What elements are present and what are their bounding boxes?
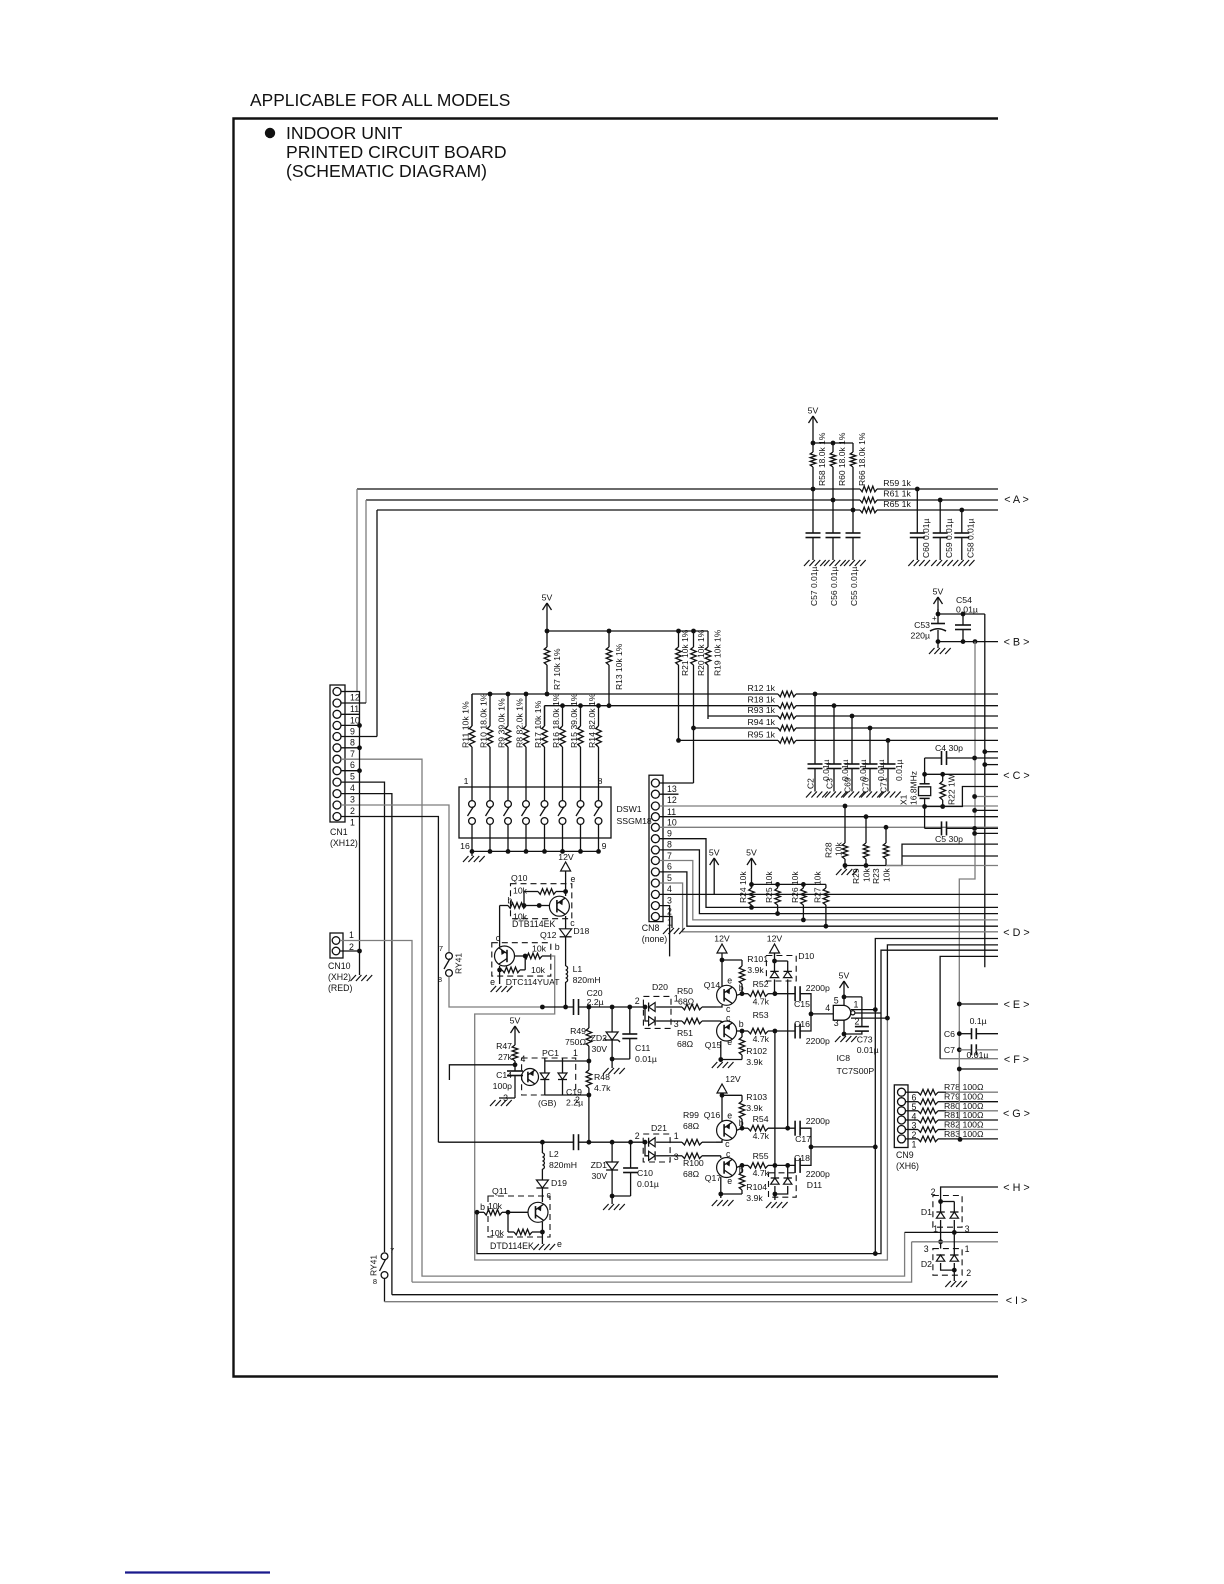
power 5V (left) [713, 858, 715, 876]
svg-text:2.2µ: 2.2µ [566, 1098, 583, 1108]
svg-text:C55 0.01µ: C55 0.01µ [849, 567, 859, 606]
resistor R54 4.7k [742, 1127, 748, 1129]
svg-text:L2: L2 [549, 1149, 559, 1159]
svg-text:13: 13 [667, 784, 677, 794]
wire CN10 pin1 [340, 941, 412, 1283]
svg-text:12V: 12V [714, 934, 730, 944]
resistor R55 4.7k [742, 1164, 748, 1166]
resistor R16 18.0k 1% [562, 725, 564, 727]
wire CN1 pin9 [341, 724, 360, 726]
svg-text:10k: 10k [834, 842, 844, 856]
svg-text:R13 10k 1%: R13 10k 1% [614, 643, 624, 690]
resistor R14 82.0k 1% [598, 725, 600, 727]
capacitor C60 0.01u [916, 489, 918, 533]
wire R53 bus down [774, 1031, 776, 1165]
wire bus pin12 down to CN10 [357, 692, 360, 976]
svg-text:12V: 12V [725, 1074, 741, 1084]
svg-text:PC1: PC1 [542, 1048, 559, 1058]
resistor R48 4.7k [588, 1061, 590, 1070]
capacitor C7 0.01u [957, 1047, 962, 1052]
resistor R99 68ohm [672, 1141, 682, 1143]
svg-text:CN8: CN8 [642, 923, 660, 933]
svg-text:30V: 30V [592, 1171, 608, 1181]
svg-text:C57 0.01µ: C57 0.01µ [809, 567, 819, 606]
svg-text:8: 8 [373, 1277, 377, 1286]
svg-text:10k: 10k [862, 868, 872, 882]
svg-text:Q16: Q16 [704, 1110, 721, 1120]
wire CN1 pin4 to RY41-2 [341, 782, 385, 1252]
svg-text:R21 10k 1%: R21 10k 1% [680, 629, 690, 676]
wire D1 pin3 line [953, 1220, 955, 1232]
wire R48 bottom to C19 line [588, 1095, 590, 1142]
svg-text:12V: 12V [558, 852, 574, 862]
svg-text:2: 2 [635, 996, 640, 1006]
capacitor C11 0.01u [629, 1007, 631, 1034]
wire CN8 pin3 line [660, 893, 999, 895]
svg-text:(RED): (RED) [328, 983, 353, 993]
svg-text:< C >: < C > [1003, 770, 1029, 782]
svg-text:R50: R50 [677, 986, 693, 996]
phototransistor PC1 [522, 1069, 539, 1086]
resistor R23 10k [885, 827, 887, 843]
svg-text:10k: 10k [490, 1228, 505, 1238]
svg-text:R93 1k: R93 1k [747, 705, 775, 715]
svg-text:c: c [725, 1139, 730, 1149]
wire node F stub [940, 1058, 998, 1060]
svg-text:27k: 27k [498, 1052, 513, 1062]
zener ZD1 30V [611, 1142, 613, 1162]
ground C53 [937, 642, 939, 648]
wire 5V rail [546, 621, 548, 631]
svg-text:R22 1W: R22 1W [947, 774, 957, 805]
svg-text:5: 5 [834, 995, 839, 1005]
svg-text:R48: R48 [594, 1072, 610, 1082]
diode D19 [536, 1180, 548, 1188]
svg-text:SSGM18: SSGM18 [617, 816, 652, 826]
svg-text:7: 7 [667, 851, 672, 861]
svg-text:220µ: 220µ [910, 631, 930, 641]
wire rail to R11-R8 [471, 694, 473, 726]
svg-text:0.01µ: 0.01µ [894, 759, 904, 781]
wire Q14 base node [736, 994, 742, 996]
svg-text:5: 5 [350, 772, 355, 782]
svg-text:C16: C16 [794, 1019, 810, 1029]
svg-text:4.7k: 4.7k [753, 997, 770, 1007]
wire RY41 to C20 node [449, 976, 542, 1007]
wire CN8 pin13 [660, 782, 694, 784]
svg-text:< E >: < E > [1004, 999, 1030, 1011]
capacitor C57 0.01u [812, 489, 814, 533]
ground Q17 [712, 1200, 718, 1206]
wire R53 to C16 [775, 1030, 795, 1032]
svg-text:DTC114YUAT: DTC114YUAT [506, 977, 560, 987]
svg-text:R78: R78 [944, 1082, 960, 1092]
wire CN8 pin7 [660, 850, 999, 914]
svg-text:b: b [739, 1019, 744, 1029]
wire R55 to C18 [775, 1164, 795, 1166]
svg-text:C54: C54 [956, 595, 972, 605]
inductor L2 820mH [541, 1142, 543, 1153]
svg-text:10k: 10k [531, 965, 546, 975]
wire CN8 pin2 [660, 906, 670, 957]
wire CN8 pin1 ground [660, 917, 673, 929]
svg-text:e: e [571, 874, 576, 884]
svg-text:5: 5 [667, 873, 672, 883]
wire IC8 input [811, 1013, 833, 1015]
power 5V (PC1) [514, 1026, 516, 1044]
svg-text:68Ω: 68Ω [683, 1121, 700, 1131]
wire Q11 emitter [541, 1222, 543, 1244]
wire bottom bus 2 (CN10 pin1) [412, 1242, 912, 1282]
svg-text:X1: X1 [899, 794, 909, 805]
svg-text:D20: D20 [652, 982, 668, 992]
svg-text:C2: C2 [806, 778, 816, 789]
wire 5V rail A [812, 434, 814, 443]
svg-text:8: 8 [438, 975, 442, 984]
switch element DSW1 [559, 801, 566, 808]
resistor R26 10k [802, 884, 804, 888]
svg-text:7: 7 [390, 1246, 394, 1255]
svg-text:R54: R54 [753, 1114, 769, 1124]
svg-text:68Ω: 68Ω [683, 1169, 700, 1179]
svg-text:C10: C10 [637, 1168, 653, 1178]
svg-text:7: 7 [439, 944, 443, 953]
svg-text:8: 8 [667, 840, 672, 850]
svg-text:3.9k: 3.9k [746, 1103, 763, 1113]
wire node B line [938, 641, 998, 643]
svg-text:4: 4 [825, 1003, 830, 1013]
wire Q14 collector [716, 1005, 722, 1007]
wire B vertical bus [959, 642, 975, 1004]
resistor R81 100ohm [906, 1119, 915, 1121]
resistor R51 68ohm [672, 1020, 682, 1022]
svg-text:4.7k: 4.7k [753, 1131, 770, 1141]
svg-text:1: 1 [854, 999, 859, 1009]
svg-text:4: 4 [350, 783, 355, 793]
resistor R18 1k [777, 705, 778, 707]
wire R54 to C17 [788, 1127, 795, 1129]
svg-text:RY41: RY41 [454, 953, 464, 974]
svg-text:CN10: CN10 [328, 961, 351, 971]
svg-text:11: 11 [350, 704, 359, 714]
wire DSW1 ground rail [472, 850, 599, 852]
wire line R12 [472, 693, 777, 695]
wire PC1 pin2 [563, 1094, 589, 1096]
capacitor C5 30p [925, 827, 942, 829]
svg-text:2: 2 [350, 806, 355, 816]
wire line A1 right [917, 488, 998, 490]
svg-text:10k: 10k [513, 886, 528, 896]
svg-text:3: 3 [834, 1018, 839, 1028]
svg-text:R24 10k: R24 10k [738, 871, 748, 903]
wire below F stub [957, 1067, 962, 1072]
resistor R102 3.9k [741, 1031, 743, 1037]
wire stub 764 [985, 764, 998, 766]
capacitor C17 2200p [794, 1121, 796, 1136]
transistor Q12 [495, 946, 515, 966]
wire Q11 base to bus1 [477, 1013, 881, 1254]
wire line A1 [357, 488, 860, 490]
capacitor C3 0.01u [833, 706, 835, 764]
svg-text:L1: L1 [573, 964, 583, 974]
svg-text:5V: 5V [839, 971, 850, 981]
wire CN1 pin10 [341, 713, 360, 715]
wire C20 node line [542, 1006, 573, 1008]
wire A1 to CN1 pin12 [356, 489, 358, 692]
svg-text:R14 82.0k 1%: R14 82.0k 1% [587, 693, 597, 748]
svg-text:R11 10k 1%: R11 10k 1% [460, 701, 470, 748]
capacitor C16 2200p [794, 1024, 796, 1039]
svg-text:5V: 5V [746, 848, 757, 858]
svg-text:(XH12): (XH12) [330, 838, 358, 848]
wire A3 to CN1 pin8 [376, 510, 378, 737]
svg-text:3: 3 [667, 895, 672, 905]
power 5V (R24 rail) [751, 858, 753, 876]
svg-text:R20 10k 1%: R20 10k 1% [696, 629, 706, 676]
svg-text:4.7k: 4.7k [753, 1168, 770, 1178]
wire 5V to C53/C54 [937, 609, 939, 614]
power 5V (R7 rail) [546, 603, 548, 621]
resistor R58 18.0k 1% [812, 443, 814, 452]
svg-text:e: e [557, 1239, 562, 1249]
svg-text:R12 1k: R12 1k [747, 683, 775, 693]
svg-text:1: 1 [349, 930, 354, 940]
svg-text:100p: 100p [493, 1081, 512, 1091]
svg-text:DTB114EK: DTB114EK [512, 919, 555, 929]
wire Q14 emitter node [721, 958, 723, 986]
svg-text:1: 1 [674, 1131, 679, 1141]
svg-text:R61 1k: R61 1k [883, 489, 911, 499]
svg-text:8: 8 [598, 776, 603, 786]
capacitor C15 2200p [794, 986, 796, 1001]
capacitor C56 0.01u [832, 500, 834, 533]
zener ZD2 30V [611, 1007, 613, 1032]
resistor Q12 10k lower [499, 966, 501, 970]
switch element DSW1 [487, 801, 494, 808]
svg-text:Q12: Q12 [540, 930, 557, 940]
svg-text:Q10: Q10 [511, 873, 528, 883]
svg-text:16.8MHz: 16.8MHz [909, 771, 919, 805]
svg-text:0.01µ: 0.01µ [635, 1054, 657, 1064]
capacitor C73 0.01u [861, 997, 863, 1027]
wire CN1 pin8 [341, 736, 377, 738]
wire node H stub [941, 1187, 998, 1202]
svg-text:R7 10k 1%: R7 10k 1% [552, 648, 562, 690]
svg-text:R102: R102 [746, 1046, 767, 1056]
svg-text:C6: C6 [944, 1029, 955, 1039]
resistor R7 10k 1% [546, 631, 548, 647]
wire CN1 pin12 [341, 691, 357, 693]
wire PC1 pin3 ground [514, 1094, 516, 1098]
resistor R24 10k [751, 884, 753, 888]
wire line R18 [545, 705, 778, 707]
svg-text:R51: R51 [677, 1028, 693, 1038]
wire Q16 emitter node [721, 1095, 723, 1121]
svg-text:C53: C53 [914, 620, 930, 630]
svg-text:R9 39.0k 1%: R9 39.0k 1% [496, 698, 506, 748]
svg-text:12V: 12V [767, 934, 783, 944]
wire IC8 output wires [851, 1009, 875, 1011]
svg-text:8: 8 [350, 738, 355, 748]
svg-text:4: 4 [667, 884, 672, 894]
footer blue line [125, 1571, 270, 1573]
resistor R80 100ohm [906, 1110, 915, 1112]
svg-text:820mH: 820mH [573, 975, 601, 985]
transistor Q10 [549, 896, 569, 916]
svg-text:C60 0.01µ: C60 0.01µ [921, 519, 931, 558]
ground ZD1/C10 [611, 1196, 613, 1204]
svg-text:R16 18.0k 1%: R16 18.0k 1% [551, 693, 561, 748]
svg-text:3: 3 [924, 1244, 929, 1254]
ground D2 [953, 1270, 955, 1281]
connector CN10 (XH2)(RED) [330, 933, 343, 958]
power 5V (A block) [812, 416, 814, 434]
svg-text:9: 9 [602, 841, 607, 851]
svg-text:3.9k: 3.9k [746, 1057, 763, 1067]
svg-text:< H >: < H > [1003, 1182, 1029, 1194]
power 12V (DSW1/Q10) [561, 862, 571, 871]
svg-text:< A >: < A > [1004, 494, 1029, 506]
wire C54 right vertical [984, 614, 986, 967]
resistor R50 68ohm [672, 1006, 682, 1008]
svg-text:(GB): (GB) [538, 1098, 556, 1108]
svg-text:< I >: < I > [1006, 1295, 1028, 1307]
wire CN8 pin4 [660, 883, 999, 932]
svg-text:D10: D10 [798, 951, 814, 961]
svg-text:C59 0.01µ: C59 0.01µ [944, 519, 954, 558]
wire IC8 pin5 [843, 999, 845, 1005]
resistor R9 39.0k 1% [507, 725, 509, 727]
svg-text:C69: C69 [843, 777, 853, 793]
capacitor C14 100p [514, 1065, 516, 1071]
wire A2 to CN1 pin11 [365, 500, 367, 703]
svg-text:820mH: 820mH [549, 1160, 577, 1170]
svg-text:R95 1k: R95 1k [747, 729, 775, 739]
switch element DSW1 [541, 801, 548, 808]
svg-text:R66 18.0k 1%: R66 18.0k 1% [857, 432, 867, 486]
svg-text:TC7S00P: TC7S00P [837, 1066, 875, 1076]
svg-text:R49: R49 [570, 1026, 586, 1036]
svg-text:100Ω: 100Ω [963, 1110, 984, 1120]
svg-text:2200p: 2200p [806, 1169, 830, 1179]
capacitor C58 0.01u [961, 510, 963, 533]
svg-text:R19 10k 1%: R19 10k 1% [713, 629, 723, 676]
wire CN1 pin7 [341, 747, 360, 749]
resistor R17 10k 1% [544, 725, 546, 727]
wire CN8 pin12 [660, 793, 679, 795]
capacitor C69 0.01u [851, 716, 853, 764]
svg-text:ZD1: ZD1 [591, 1160, 608, 1170]
resistor R61 1k [859, 499, 861, 501]
svg-text:0.01µ: 0.01µ [637, 1179, 659, 1189]
svg-text:6: 6 [667, 862, 672, 872]
wire R28 bottom rail [845, 865, 886, 867]
resistor R8 82.0k 1% [525, 725, 527, 727]
svg-text:R15 39.0k 1%: R15 39.0k 1% [569, 693, 579, 748]
svg-text:+: + [932, 614, 937, 623]
wire CN8 pin10 line [660, 816, 999, 818]
wire C17/C18 junction right [811, 1146, 875, 1148]
wire CN1 pin1 to C19 line [341, 817, 438, 1143]
svg-text:R101: R101 [747, 954, 768, 964]
svg-text:INDOOR UNIT: INDOOR UNIT [286, 123, 403, 143]
svg-text:2200p: 2200p [806, 983, 830, 993]
svg-text:R18 1k: R18 1k [747, 695, 775, 705]
resistor R28 10k [844, 806, 846, 843]
svg-text:1: 1 [350, 818, 355, 828]
svg-text:C7: C7 [944, 1045, 955, 1055]
ground R28 [844, 866, 846, 870]
capacitor C18 2200p [794, 1158, 796, 1173]
svg-text:9: 9 [667, 828, 672, 838]
wire CN1 pin2 to RY41 [341, 805, 449, 952]
wire D1 pin1 line [940, 1220, 942, 1249]
svg-text:C11: C11 [635, 1043, 650, 1053]
svg-text:DTD114EK: DTD114EK [490, 1241, 534, 1251]
svg-text:PRINTED CIRCUIT BOARD: PRINTED CIRCUIT BOARD [286, 142, 507, 162]
svg-text:R65 1k: R65 1k [883, 499, 911, 509]
diode pack D1 [933, 1196, 962, 1228]
wire line R93 [708, 715, 777, 717]
svg-text:3.9k: 3.9k [747, 965, 764, 975]
resistor R79 100ohm [906, 1101, 915, 1103]
svg-text:APPLICABLE FOR ALL MODELS: APPLICABLE FOR ALL MODELS [250, 90, 510, 110]
wire C19 line [438, 1141, 573, 1143]
wire line A3 [377, 509, 860, 511]
resistor Q11 10k lower [507, 1212, 509, 1232]
ground CN10 bus [351, 975, 357, 981]
svg-text:R17 10k 1%: R17 10k 1% [533, 700, 543, 748]
capacitor C10 0.01u [630, 1142, 632, 1168]
resistor R27 10k [825, 884, 827, 888]
wire D10 right down bus [787, 979, 789, 1128]
wire stub 751 [985, 751, 998, 753]
LED PC1 diodes [544, 1058, 546, 1073]
svg-text:0.1µ: 0.1µ [970, 1016, 987, 1026]
wire CN10 pin2 [340, 950, 360, 952]
wire R23 bottom stub [886, 844, 998, 865]
svg-text:750Ω: 750Ω [565, 1037, 586, 1047]
resistor R65 1k [859, 509, 861, 511]
svg-text:5V: 5V [933, 587, 944, 597]
svg-text:(SCHEMATIC DIAGRAM): (SCHEMATIC DIAGRAM) [286, 161, 487, 181]
svg-text:< B >: < B > [1004, 637, 1030, 649]
svg-text:7: 7 [350, 749, 355, 759]
svg-text:R103: R103 [746, 1092, 767, 1102]
switch element DSW1 [523, 801, 530, 808]
wire Q15 emitter [720, 1041, 722, 1062]
capacitor C71 0.01u [887, 740, 889, 764]
resistor R47 27k [514, 1044, 516, 1045]
svg-text:(XH2): (XH2) [328, 972, 351, 982]
svg-text:< F >: < F > [1004, 1054, 1029, 1066]
ground DSW1 [471, 851, 473, 856]
resistor R100 68ohm [672, 1155, 682, 1157]
ground D11 [774, 1194, 776, 1200]
svg-text:C56 0.01µ: C56 0.01µ [829, 567, 839, 606]
svg-text:R99: R99 [683, 1110, 699, 1120]
svg-text:C15: C15 [794, 999, 810, 1009]
svg-text:C5 30p: C5 30p [935, 834, 963, 844]
wire E/C6/C7 vertical [958, 1004, 960, 1139]
svg-text:C14: C14 [496, 1070, 512, 1080]
resistor R94 1k [777, 727, 778, 729]
svg-text:R47: R47 [496, 1041, 512, 1051]
svg-text:ZD2: ZD2 [591, 1033, 608, 1043]
svg-text:e: e [727, 1111, 732, 1121]
svg-text:CN1: CN1 [330, 827, 348, 837]
ground Q15 [712, 1062, 718, 1068]
